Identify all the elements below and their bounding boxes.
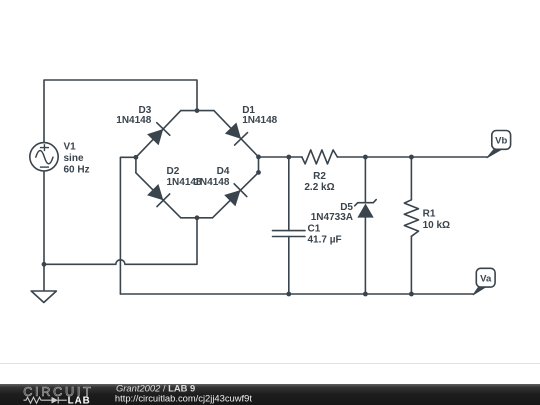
svg-text:LAB: LAB (68, 395, 91, 405)
svg-text:60 Hz: 60 Hz (64, 165, 90, 176)
svg-text:41.7 µF: 41.7 µF (308, 235, 342, 246)
svg-text:http://circuitlab.com/cj2jj43c: http://circuitlab.com/cj2jj43cuwf9t (115, 392, 252, 403)
svg-text:C1: C1 (308, 224, 321, 235)
svg-text:1N4148: 1N4148 (194, 177, 229, 188)
svg-text:1N4733A: 1N4733A (311, 212, 353, 223)
svg-text:V1: V1 (64, 142, 77, 153)
svg-text:2.2 kΩ: 2.2 kΩ (304, 182, 334, 193)
svg-text:sine: sine (64, 153, 84, 164)
svg-text:1N4148: 1N4148 (242, 115, 277, 126)
svg-text:Va: Va (480, 273, 492, 284)
svg-text:R1: R1 (423, 209, 436, 220)
svg-text:R2: R2 (313, 171, 326, 182)
svg-text:D2: D2 (167, 166, 180, 177)
svg-text:Vb: Vb (495, 136, 507, 147)
svg-text:1N4148: 1N4148 (116, 115, 151, 126)
svg-text:10 kΩ: 10 kΩ (423, 220, 450, 231)
svg-text:D4: D4 (217, 166, 230, 177)
